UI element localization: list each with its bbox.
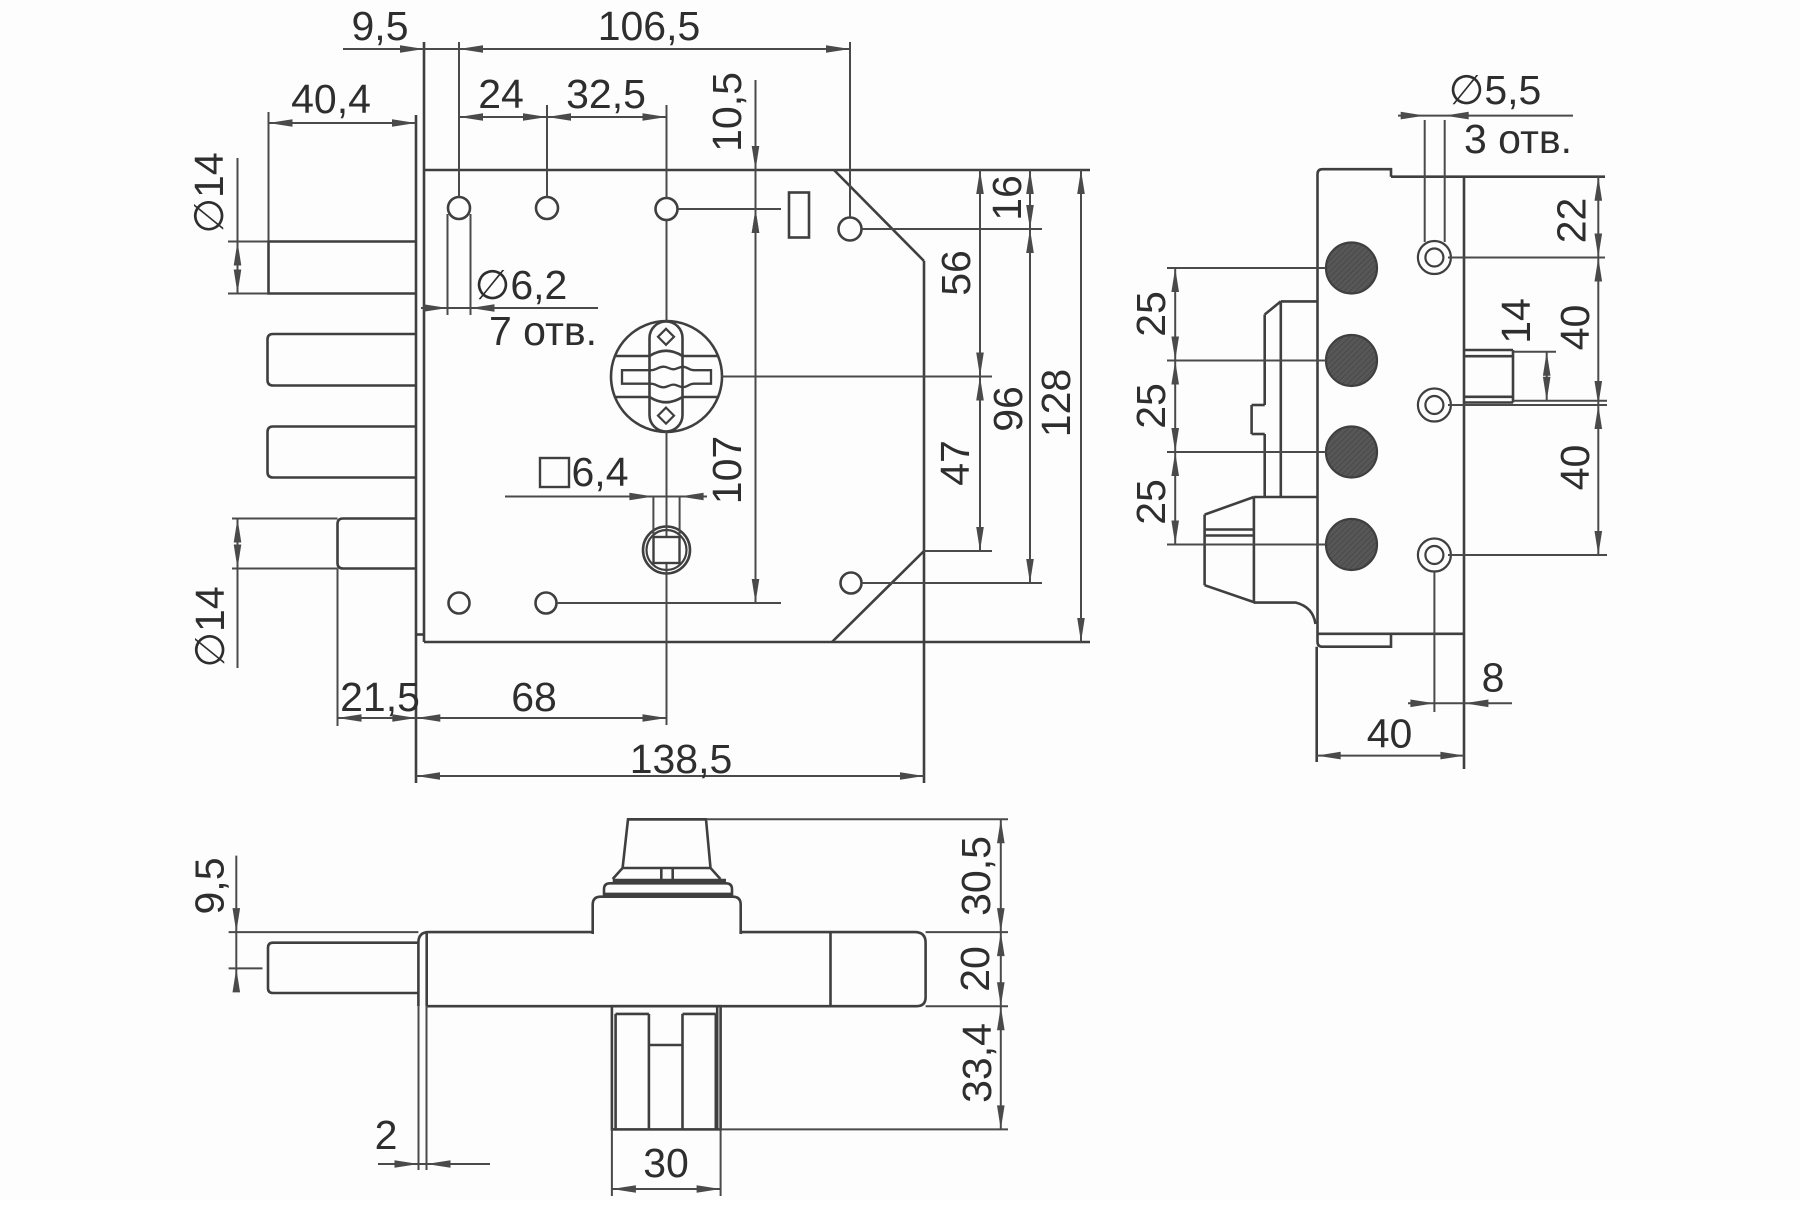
screw hole centreline down to dim 8 <box>1433 572 1435 712</box>
dimension 2 (faceplate thickness) <box>375 1112 490 1168</box>
bolt B3 (front view) <box>268 427 417 478</box>
svg-text:128: 128 <box>1033 369 1079 437</box>
dimension chain 22/40/40 (screw hole pitch, rotated) <box>1549 177 1603 555</box>
keyhole escutcheon (lever lock cylinder) <box>611 321 722 432</box>
mounting hole H5 (bottom right) <box>841 573 862 594</box>
dimension 10,5 (top edge to hole row, rotated) <box>704 72 759 233</box>
svg-text:107: 107 <box>704 436 750 504</box>
svg-text:21,5: 21,5 <box>340 674 420 720</box>
svg-text:25: 25 <box>1128 291 1174 337</box>
dimension 128 (body height, rotated) <box>1033 170 1085 642</box>
front view: faceplate strip <box>416 115 424 783</box>
extension lines for dim 9,5 (bottom view) <box>229 932 419 968</box>
extension line from bottom chamfer corner to dim 47 <box>924 550 992 552</box>
svg-text:24: 24 <box>478 71 524 117</box>
dimension 9,5 (case top to bolt axis, rotated) <box>187 856 241 993</box>
mounting hole H7 (bottom) <box>536 593 557 614</box>
mounting hole H1 (top row) <box>448 197 470 219</box>
vertical centreline through keyhole and spindle <box>666 105 668 725</box>
dimension diameter 6,2 with note 7 holes <box>421 262 598 354</box>
svg-text:∅5,5: ∅5,5 <box>1449 67 1542 113</box>
svg-text:∅14: ∅14 <box>187 586 233 667</box>
extension line from hole H3 to dim 10,5 <box>678 208 782 210</box>
svg-text:3 отв.: 3 отв. <box>1464 116 1572 162</box>
front view: lock body outline <box>424 42 1090 783</box>
svg-text:6,4: 6,4 <box>572 449 629 495</box>
extension lines from bolt sections to dim chain 25 <box>1167 268 1326 545</box>
extension line latch face down to dim 21,5 <box>337 569 339 727</box>
bolt B2 (front view) <box>268 334 417 386</box>
extension line from hole H2 up to dims <box>546 105 548 197</box>
extension line from keyhole centre to dims 56/47 <box>722 376 993 378</box>
latch bolt (front view) <box>338 519 417 569</box>
svg-text:25: 25 <box>1128 383 1174 429</box>
spindle hub profile (upper left) <box>1265 301 1318 360</box>
svg-text:14: 14 <box>1493 298 1539 344</box>
svg-text:30,5: 30,5 <box>953 836 999 916</box>
side view: lock case edges <box>1317 177 1605 769</box>
svg-text:138,5: 138,5 <box>630 736 733 782</box>
extension lines screw holes to dim chain 22/40/40 <box>1448 258 1607 556</box>
mounting hole H6 (bottom left) <box>449 593 470 614</box>
bolt section S3 (hatched) <box>1326 427 1377 478</box>
screw hole R3 with countersink <box>1418 539 1451 572</box>
dimension 21,5 (latch offset) <box>338 674 420 722</box>
dimension 106,5 (hole span) <box>459 3 850 53</box>
turn knob (bottom view) <box>593 819 741 934</box>
lower guide block (bottom view) <box>612 1006 721 1129</box>
extension lines of square hole for dim 6,4 <box>653 497 679 535</box>
svg-text:16: 16 <box>984 175 1030 221</box>
extension line bolt B1 face for dim 40,4 <box>268 112 270 242</box>
extension lines for dim 2 (faceplate thickness) <box>419 1006 427 1170</box>
extension lines of hole H1 diameter 6,2 <box>448 214 471 315</box>
svg-text:40: 40 <box>1552 445 1598 491</box>
turn knob profile (side view) <box>1205 497 1318 624</box>
dimension square 6,4 (spindle hole) <box>505 449 707 500</box>
dimension 14 (latch thickness, rotated) <box>1493 298 1551 401</box>
bolt (bottom view) <box>268 943 418 993</box>
svg-text:32,5: 32,5 <box>566 71 646 117</box>
dimension 68 (spindle offset) <box>416 674 666 722</box>
svg-text:40: 40 <box>1552 305 1598 351</box>
svg-text:∅14: ∅14 <box>186 152 232 233</box>
extension line from hole H1 up to dims <box>458 42 460 197</box>
square spindle hole with round boss <box>643 527 690 574</box>
svg-text:56: 56 <box>933 250 979 296</box>
dimension 56 (top to keyhole, rotated) <box>933 170 984 551</box>
bolt section S2 (hatched) <box>1326 335 1377 386</box>
middle boss profile with tab <box>1252 361 1281 498</box>
dimension 40,4 (bolt protrusion) <box>269 76 417 127</box>
bolt section S1 (hatched) <box>1326 243 1377 294</box>
screw hole R2 with countersink <box>1418 389 1451 422</box>
svg-text:8: 8 <box>1482 655 1505 701</box>
extension line from hole H4 to dim 96 <box>862 228 1043 230</box>
svg-text:106,5: 106,5 <box>598 3 701 49</box>
svg-text:33,4: 33,4 <box>954 1023 1000 1103</box>
svg-text:10,5: 10,5 <box>704 72 750 152</box>
dimension 30 (block width) <box>612 1140 721 1193</box>
svg-text:96: 96 <box>985 386 1031 432</box>
svg-text:25: 25 <box>1128 479 1174 525</box>
side view: faceplate outline <box>1318 169 1392 647</box>
svg-text:9,5: 9,5 <box>352 3 409 49</box>
extension line from hole H5 to dim 96 <box>862 582 1043 584</box>
dimension diameter 14 (latch, rotated) <box>187 519 241 669</box>
svg-text:20: 20 <box>952 946 998 992</box>
dimension 16 (top to hole H4, rotated) <box>984 170 1034 583</box>
svg-text:30: 30 <box>643 1140 689 1186</box>
extension line from hole H7 to dim 107 <box>557 602 782 604</box>
svg-text:∅6,2: ∅6,2 <box>475 262 568 308</box>
mounting hole H2 (top row) <box>536 197 558 219</box>
dimension 107 (hole row span, rotated) <box>704 209 759 603</box>
extension lines right side of bottom view <box>706 819 1008 1129</box>
extension lines bolt B1 for dim diameter 14 <box>228 242 269 294</box>
dimension 9,5 (plate to first hole) <box>343 3 459 53</box>
latch profile (side view right) <box>1464 350 1513 403</box>
screw hole R1 with countersink <box>1418 241 1451 274</box>
dimension 24 (hole pitch) <box>459 71 547 121</box>
extension lines for dim 30 (block width) <box>612 1129 721 1196</box>
dimension 40 (case width) <box>1317 711 1465 760</box>
svg-text:2: 2 <box>375 1112 398 1158</box>
extension lines latch for lower dim diameter 14 <box>232 519 338 569</box>
bolt B1 (top bolt, front view) <box>269 242 417 294</box>
extension lines diameter 5,5 from screw hole R1 <box>1425 120 1445 242</box>
svg-text:40,4: 40,4 <box>291 76 371 122</box>
mounting hole H3 (top row) <box>656 198 678 220</box>
svg-text:47: 47 <box>932 440 978 486</box>
dimension 138,5 (body length) <box>416 736 924 782</box>
svg-text:40: 40 <box>1367 711 1413 757</box>
svg-text:7 отв.: 7 отв. <box>489 308 597 354</box>
svg-text:68: 68 <box>511 674 557 720</box>
bolt section S4 (hatched) <box>1326 519 1377 570</box>
dimension diameter 14 (top bolt, rotated) <box>186 152 241 293</box>
dimension diameter 5,5 with note 3 holes <box>1398 67 1573 162</box>
dimension 8 (hole line to case edge) <box>1408 655 1512 708</box>
slot hole near chamfer <box>789 193 809 238</box>
svg-text:9,5: 9,5 <box>187 858 233 915</box>
dimension 32,5 (hole pitch) <box>547 71 667 121</box>
dimension chain 25/25/25 (bolt pitch, rotated) <box>1128 268 1179 545</box>
svg-text:22: 22 <box>1549 198 1595 244</box>
mounting hole H4 (top right) <box>839 218 862 241</box>
extension line from hole H4 up to dim 106,5 <box>849 42 851 217</box>
dimension chain 30,5/20/33,4 (rotated) <box>952 819 1005 1129</box>
bottom view: lock case bar outline <box>418 932 925 1006</box>
